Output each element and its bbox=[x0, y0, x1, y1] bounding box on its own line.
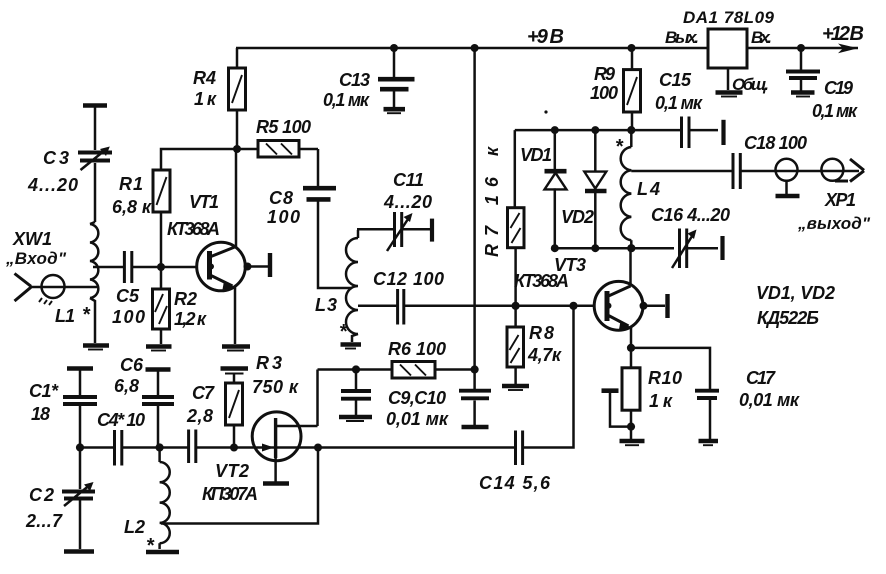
svg-text:C4* 10: C4* 10 bbox=[97, 410, 145, 430]
svg-text:0,1 мк: 0,1 мк bbox=[812, 101, 858, 121]
node rail-C13 bbox=[390, 44, 398, 52]
svg-text:R9: R9 bbox=[594, 64, 615, 84]
svg-text:R6 100: R6 100 bbox=[388, 339, 446, 359]
capacitor C14 5,6 (series) bbox=[318, 306, 574, 493]
svg-text:„Вход": „Вход" bbox=[5, 249, 67, 268]
svg-text:„выход": „выход" bbox=[797, 214, 871, 233]
wire L2 tap to x318 riser bbox=[161, 448, 318, 524]
capacitor C9 0,01mk bbox=[339, 370, 372, 422]
resistor R6 100 bbox=[388, 339, 475, 378]
stray mark bbox=[544, 110, 547, 113]
svg-text:VD2: VD2 bbox=[561, 207, 594, 227]
capacitor C8 100 bbox=[267, 149, 352, 288]
svg-text:КП307А: КП307А bbox=[202, 484, 258, 504]
svg-text:C13: C13 bbox=[339, 70, 370, 90]
wire emitter to C17 bbox=[631, 348, 710, 389]
node R3-gate bbox=[230, 444, 238, 452]
node C14 riser on base line bbox=[569, 302, 577, 310]
+12V arrow bbox=[838, 44, 858, 54]
resistor R8 4,7k bbox=[507, 306, 562, 384]
svg-text:C1*: C1* bbox=[29, 381, 59, 401]
node C4-C6-L2-C7 bbox=[156, 443, 164, 451]
diode VD2 bbox=[561, 130, 607, 248]
node R10 bottom bbox=[627, 423, 635, 431]
svg-text:0,01 мк: 0,01 мк bbox=[386, 409, 449, 429]
svg-text:C6: C6 bbox=[120, 355, 144, 375]
svg-text:18: 18 bbox=[31, 404, 50, 424]
resistor R3 750k bbox=[221, 353, 299, 448]
transistor VT1 KT368A bbox=[161, 149, 270, 344]
svg-text:L1: L1 bbox=[55, 306, 75, 326]
capacitor C10 0,01mk bbox=[459, 370, 491, 428]
svg-text:XP1: XP1 bbox=[824, 190, 856, 210]
node C9 bbox=[352, 365, 360, 373]
svg-text:L3: L3 bbox=[315, 295, 337, 315]
svg-text:VD1: VD1 bbox=[520, 145, 552, 165]
capacitor C12 100 (series) bbox=[358, 269, 594, 325]
node gate line x318 bbox=[314, 444, 322, 452]
svg-text:1,2 к: 1,2 к bbox=[174, 309, 207, 329]
svg-text:*: * bbox=[82, 304, 91, 326]
svg-text:R5 100: R5 100 bbox=[256, 117, 311, 137]
capacitor C15 0,1mk bbox=[655, 70, 724, 148]
capacitor C5 100 (series) bbox=[93, 251, 161, 327]
wire drain line to R6 bbox=[318, 368, 393, 371]
node R6-right on +9V riser bbox=[471, 365, 479, 373]
connector XP1 "выход" bbox=[776, 159, 871, 233]
svg-text:Вх.: Вх. bbox=[751, 28, 772, 47]
svg-text:C5: C5 bbox=[116, 286, 140, 306]
ground Общ of DA1 bbox=[716, 68, 770, 97]
svg-text:4,7к: 4,7к bbox=[527, 345, 562, 365]
node C1-C4-C2 bbox=[76, 443, 84, 451]
svg-text:C8: C8 bbox=[269, 188, 293, 208]
resistor R2 1,2k bbox=[153, 267, 207, 344]
capacitor C7 2,8 (series) bbox=[160, 383, 226, 463]
wire R4 node to R1 bbox=[161, 149, 237, 170]
svg-text:R2: R2 bbox=[174, 289, 197, 309]
svg-text:0,1 мк: 0,1 мк bbox=[655, 93, 703, 113]
resistor R4 1k bbox=[193, 48, 246, 149]
svg-text:VD1, VD2: VD1, VD2 bbox=[756, 283, 835, 303]
capacitor C3 4...20 (variable) bbox=[27, 106, 112, 223]
svg-text:100: 100 bbox=[590, 83, 618, 103]
svg-text:6,8: 6,8 bbox=[114, 376, 139, 396]
svg-text:VT1: VT1 bbox=[189, 192, 219, 212]
ground under L1 bbox=[83, 343, 109, 348]
wire +9V long riser x474.6 bbox=[473, 48, 476, 370]
inductor L2 bbox=[124, 448, 179, 558]
node rail-R9 bbox=[628, 44, 636, 52]
svg-text:1 к: 1 к bbox=[194, 89, 217, 109]
inductor L3 bbox=[315, 230, 361, 349]
svg-text:DA1 78L09: DA1 78L09 bbox=[683, 8, 775, 27]
resistor R5 100 bbox=[237, 117, 318, 157]
resistor R9 100 bbox=[590, 48, 641, 130]
ground under R2 bbox=[146, 344, 172, 349]
resistor R1 6,8k bbox=[112, 170, 170, 267]
wire R9 bottom to L4 bbox=[630, 130, 633, 147]
wire VT2 drain riser bbox=[316, 370, 319, 427]
wire +9V top rail bbox=[236, 47, 858, 50]
svg-text:2,8: 2,8 bbox=[186, 406, 213, 426]
inductor L1 bbox=[55, 222, 98, 343]
node R4-R5 bbox=[233, 145, 241, 153]
R10 side tap bar bbox=[602, 391, 632, 427]
svg-text:R8: R8 bbox=[529, 323, 554, 343]
svg-text:КТ368А: КТ368А bbox=[514, 271, 569, 291]
svg-text:R1: R1 bbox=[119, 174, 143, 194]
svg-text:750 к: 750 к bbox=[252, 377, 299, 397]
regulator DA1 78L09 bbox=[665, 8, 775, 68]
inductor L4 bbox=[615, 136, 660, 248]
svg-text:*: * bbox=[339, 321, 348, 343]
svg-text:C9,C10: C9,C10 bbox=[388, 388, 446, 408]
transistor VT2 KP307A (JFET) bbox=[202, 412, 318, 504]
svg-text:4...20: 4...20 bbox=[27, 175, 78, 195]
svg-text:C18 100: C18 100 bbox=[744, 133, 807, 153]
svg-text:0,01 мк: 0,01 мк bbox=[739, 390, 800, 410]
svg-text:6,8 к: 6,8 к bbox=[112, 197, 152, 217]
capacitor C16 4...20 (variable) bbox=[651, 205, 730, 268]
wire VD bus y130 bbox=[515, 129, 681, 132]
wire VD/C16 bus y248 bbox=[555, 247, 674, 250]
node base VT1 bbox=[157, 263, 165, 271]
svg-text:C12 100: C12 100 bbox=[373, 269, 444, 289]
ground under R8 bbox=[502, 384, 529, 389]
svg-text:L2: L2 bbox=[124, 517, 145, 537]
svg-text:+9 В: +9 В bbox=[527, 26, 564, 48]
node VT3 emitter bbox=[627, 344, 635, 352]
transistor VT3 KT368A bbox=[514, 248, 668, 348]
svg-text:Общ.: Общ. bbox=[732, 75, 769, 94]
svg-text:VT2: VT2 bbox=[215, 461, 249, 481]
svg-text:Вых.: Вых. bbox=[665, 28, 699, 47]
capacitor C19 bbox=[786, 48, 858, 121]
resistor R7 16k bbox=[482, 130, 524, 306]
capacitor C11 4...20 (variable) bbox=[357, 170, 432, 251]
svg-text:R10: R10 bbox=[648, 368, 682, 388]
svg-text:КД522Б: КД522Б bbox=[757, 308, 819, 328]
ground under R10 bbox=[630, 427, 633, 439]
svg-text:C2: C2 bbox=[29, 485, 54, 505]
svg-text:C19: C19 bbox=[824, 78, 853, 98]
diode VD1 bbox=[520, 130, 567, 248]
svg-text:4...20: 4...20 bbox=[383, 192, 432, 212]
capacitor C17 0,01mk bbox=[695, 368, 800, 445]
svg-text:+12 В: +12 В bbox=[822, 23, 864, 45]
svg-text:C15: C15 bbox=[659, 70, 692, 90]
svg-text:2...7: 2...7 bbox=[25, 511, 63, 531]
svg-text:1 к: 1 к bbox=[649, 391, 673, 411]
svg-text:C17: C17 bbox=[746, 368, 776, 388]
capacitor C13 0,1mk bbox=[323, 48, 415, 113]
connector XW1 "вход" bbox=[5, 229, 97, 305]
svg-text:0,1 мк: 0,1 мк bbox=[323, 90, 370, 110]
svg-text:*: * bbox=[146, 535, 155, 557]
node rail-x475 bbox=[471, 44, 479, 52]
node rail-C19 bbox=[797, 44, 805, 52]
capacitor C6 6,8 bbox=[114, 355, 174, 448]
capacitor C2 2...7 (variable) bbox=[25, 448, 95, 552]
svg-text:C16 4...20: C16 4...20 bbox=[651, 205, 730, 225]
capacitor C4* 10 (series) bbox=[80, 410, 160, 466]
svg-text:КТ368А: КТ368А bbox=[167, 219, 220, 239]
capacitor C1* 18 bbox=[29, 369, 97, 448]
svg-text:*: * bbox=[615, 136, 624, 158]
svg-text:100: 100 bbox=[112, 307, 145, 327]
svg-text:C11: C11 bbox=[393, 170, 424, 190]
wire L4 tap to C18/XP1 bbox=[631, 170, 859, 173]
svg-text:R4: R4 bbox=[193, 68, 216, 88]
resistor R10 1k bbox=[622, 348, 682, 427]
ground under VT1 emitter bbox=[222, 344, 250, 349]
capacitor C18 100 (series) bbox=[733, 133, 807, 189]
svg-text:C7: C7 bbox=[192, 383, 215, 403]
node R7/R8 on base line bbox=[511, 302, 519, 310]
svg-text:XW1: XW1 bbox=[12, 229, 52, 249]
svg-text:100: 100 bbox=[267, 207, 300, 227]
